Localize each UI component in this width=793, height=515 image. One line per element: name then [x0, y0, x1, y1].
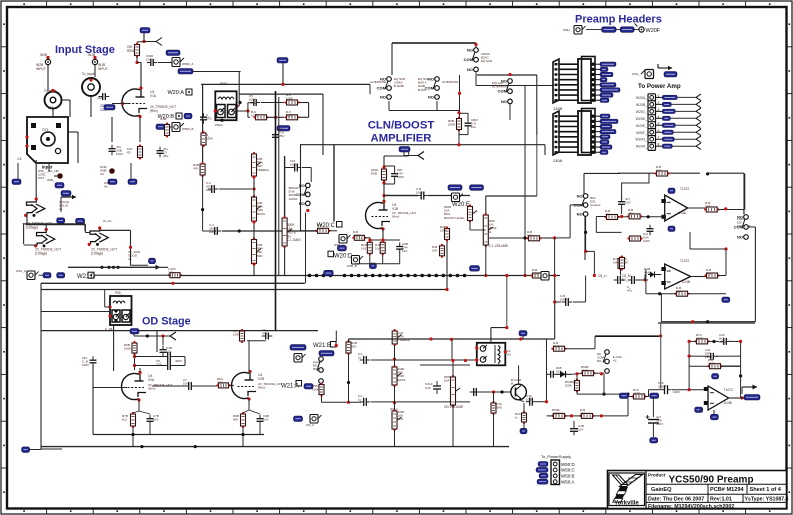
- wire: [369, 238, 371, 242]
- label C42: [719, 333, 726, 344]
- wire: [384, 195, 418, 197]
- wire: [158, 62, 172, 64]
- svg-text:A0: A0: [104, 185, 108, 189]
- junction: [235, 105, 238, 108]
- wire: [645, 269, 647, 294]
- junction: [553, 274, 556, 277]
- wire: [305, 213, 307, 284]
- pot OD BASS: [392, 365, 402, 387]
- label R9: [193, 163, 199, 171]
- svg-text:W20:C: W20:C: [317, 223, 336, 229]
- svg-text:C08: C08: [556, 370, 562, 374]
- net label N7: [43, 273, 51, 279]
- svg-text:Sheet 1 of 4: Sheet 1 of 4: [750, 487, 782, 493]
- net label J10A pin 6: [596, 140, 610, 144]
- net label N15: [619, 393, 628, 399]
- label W06_A: [334, 243, 344, 247]
- label C44: [397, 168, 404, 179]
- wire: [253, 176, 255, 198]
- svg-text:1M0: 1M0: [613, 261, 619, 265]
- junction: [171, 282, 174, 285]
- svg-text:100VA: 100VA: [289, 197, 298, 201]
- wire: [644, 275, 646, 281]
- wire: [404, 155, 418, 157]
- svg-text:NO: NO: [577, 194, 583, 199]
- label V2A: [148, 374, 155, 382]
- wire: [754, 227, 756, 322]
- wire: [547, 415, 554, 417]
- svg-text:W1T: W1T: [38, 176, 45, 180]
- label MID: [257, 243, 263, 258]
- wire: [39, 274, 44, 276]
- svg-text:100V: 100V: [673, 390, 680, 394]
- net label N16: [650, 393, 659, 399]
- label S6: [590, 196, 601, 207]
- op-amp U14B: [665, 264, 691, 289]
- wire: [491, 327, 507, 329]
- svg-text:W01_O: W01_O: [16, 269, 27, 273]
- bus junction: [442, 274, 446, 278]
- jack W06_A: [339, 235, 351, 244]
- svg-text:BOOST LEVEL: BOOST LEVEL: [444, 216, 465, 220]
- junction: [201, 208, 204, 211]
- svg-text:W20C_: W20C_: [636, 110, 647, 114]
- label OD MID: [398, 410, 405, 421]
- wire: [322, 94, 324, 155]
- svg-text:V2B: V2B: [258, 377, 264, 381]
- bus junction: [434, 274, 438, 278]
- net label PA0: [664, 72, 677, 78]
- label R14: [375, 243, 380, 251]
- wire: [156, 331, 158, 352]
- wire: [486, 195, 537, 197]
- wire: [569, 205, 571, 238]
- resistor R9: [200, 162, 205, 177]
- wire: [718, 209, 744, 211]
- wire: [308, 275, 470, 277]
- svg-text:Filename: M1294V200sch.sch2002: Filename: M1294V200sch.sch2002: [648, 504, 734, 510]
- resistor R30: [240, 329, 245, 343]
- wire: [469, 221, 471, 230]
- wire: [152, 385, 185, 387]
- label Q1: [38, 169, 60, 180]
- label U14Cb: [724, 401, 732, 405]
- net label CH2: [184, 113, 192, 119]
- junction: [553, 300, 556, 303]
- svg-text:R3: R3: [127, 151, 131, 155]
- label ODV: [444, 375, 451, 383]
- pot CL VOLUME: [483, 213, 493, 247]
- wire: [391, 43, 393, 75]
- svg-text:V2A: V2A: [148, 378, 155, 382]
- bus junction: [406, 274, 410, 278]
- wire: [470, 391, 511, 393]
- op-amp U14A: [665, 195, 688, 221]
- wire: [565, 415, 581, 417]
- resistor R4: [168, 273, 182, 278]
- svg-text:NO: NO: [467, 67, 473, 72]
- svg-text:C8_LI: C8_LI: [598, 274, 607, 278]
- wire: [202, 175, 204, 231]
- label W01: [632, 72, 640, 76]
- net label N6: [76, 218, 85, 224]
- junction: [457, 143, 460, 146]
- junction: [643, 278, 646, 281]
- resistor R3: [138, 144, 143, 159]
- resistor R2: [165, 122, 170, 137]
- label C22: [263, 414, 269, 422]
- capacitor C2: [109, 145, 116, 156]
- svg-text:U14B: U14B: [682, 280, 690, 284]
- label U14B: [680, 259, 689, 263]
- wire: [85, 232, 90, 234]
- label To_Input: [82, 72, 94, 76]
- svg-text:A_: A_: [515, 416, 519, 420]
- wire: [99, 229, 130, 231]
- junction: [25, 144, 28, 147]
- capacitor C46: [425, 381, 441, 394]
- switch S2: [377, 77, 392, 100]
- svg-text:EQ Shift: EQ Shift: [481, 59, 492, 63]
- wire: [518, 365, 520, 384]
- junction: [347, 401, 350, 404]
- junction: [504, 350, 507, 353]
- label S4: [492, 81, 508, 88]
- junction: [600, 414, 603, 417]
- capacitor C42: [720, 338, 731, 345]
- svg-text:C.L VOLUME: C.L VOLUME: [489, 244, 508, 248]
- junction: [252, 220, 255, 223]
- net label B+2: [277, 58, 288, 64]
- label Contour: [737, 217, 751, 228]
- wire: [149, 425, 151, 435]
- jack W20 row 4: [648, 115, 656, 123]
- junction: [600, 372, 603, 375]
- svg-text:B-D%: B-D%: [418, 88, 426, 92]
- wire: [545, 275, 560, 277]
- svg-text:YsType: YS1087.4: YsType: YS1087.4: [745, 497, 789, 503]
- svg-text:W20:D: W20:D: [334, 253, 353, 259]
- svg-text:1K5: 1K5: [705, 205, 711, 209]
- label C2: [116, 145, 123, 156]
- svg-text:100K: 100K: [233, 333, 240, 337]
- wire: [691, 276, 706, 278]
- label To_Input: [44, 89, 56, 93]
- wire: [261, 102, 284, 104]
- wire: [48, 163, 50, 172]
- net label PH1: [602, 27, 617, 33]
- pot OD TREBLE: [392, 329, 402, 346]
- svg-text:W50:A: W50:A: [561, 480, 575, 485]
- wire: [248, 399, 250, 410]
- wire: [476, 85, 553, 87]
- label Q3: [511, 378, 522, 386]
- junction: [450, 338, 453, 341]
- label R501: [127, 45, 135, 53]
- wire: [637, 279, 648, 281]
- wire: [369, 84, 371, 94]
- switch S6: [573, 194, 588, 217]
- arrow head: [156, 265, 161, 270]
- resistor R21: [604, 215, 619, 220]
- svg-text:1K0: 1K0: [706, 272, 712, 276]
- junction: [220, 119, 223, 122]
- junction: [306, 209, 309, 212]
- junction: [131, 433, 134, 436]
- svg-text:10K: 10K: [527, 234, 532, 238]
- svg-text:(Rev): (Rev): [392, 215, 399, 219]
- wire: [162, 336, 164, 345]
- capacitor C20: [185, 382, 196, 390]
- wire: [716, 355, 741, 357]
- pin square U14C+: [704, 401, 709, 405]
- junction: [112, 266, 115, 269]
- junction: [382, 165, 385, 168]
- svg-text:47N: 47N: [206, 117, 212, 121]
- junction: [429, 337, 432, 340]
- wire: [247, 103, 249, 118]
- wire: [509, 104, 511, 120]
- label J5: [17, 157, 22, 161]
- label R41: [708, 358, 715, 366]
- svg-text:W21:D: W21:D: [77, 274, 96, 280]
- junction: [688, 355, 691, 358]
- junction: [626, 393, 629, 396]
- svg-text:1u: 1u: [358, 398, 362, 402]
- wire: [68, 266, 160, 268]
- svg-text:W20F_: W20F_: [636, 131, 647, 135]
- bus junction: [420, 274, 424, 278]
- wire: [133, 411, 139, 413]
- net label W50 2: [536, 467, 548, 472]
- wire: [394, 180, 396, 184]
- net label N4: [128, 179, 137, 185]
- jack W20 row 2: [648, 101, 656, 109]
- triode V3A (2X_TRIODE_HCT): [88, 226, 109, 246]
- junction: [457, 111, 460, 114]
- label R16: [432, 245, 437, 253]
- label C7LIN2: [59, 200, 70, 211]
- svg-text:100K: 100K: [312, 388, 319, 392]
- label K1: [507, 349, 511, 357]
- svg-text:W50:D: W50:D: [561, 462, 576, 467]
- svg-text:25V: 25V: [279, 134, 284, 138]
- junction: [505, 326, 508, 329]
- svg-text:B 2k4B: B 2k4B: [394, 84, 404, 88]
- net label PA8: [656, 143, 702, 150]
- wire: [546, 339, 548, 349]
- capacitor C21: [262, 333, 273, 340]
- capacitor C19: [147, 415, 154, 426]
- net label AGND2: [710, 414, 718, 420]
- wire: [202, 84, 204, 164]
- wire: [134, 335, 170, 337]
- junction: [706, 320, 709, 323]
- switch S7 (Contour): [734, 215, 749, 240]
- svg-text:BASS: BASS: [257, 212, 265, 216]
- bus junction: [385, 274, 389, 278]
- wire: [237, 110, 248, 112]
- connector W21:A sq: [296, 381, 302, 387]
- junction: [135, 61, 138, 64]
- bus junction: [449, 274, 453, 278]
- label W0B2: [104, 181, 111, 189]
- net label J10A pin 2: [596, 119, 619, 123]
- svg-text:W06_B: W06_B: [347, 264, 357, 268]
- net label J10B pin 3: [596, 72, 614, 76]
- label C8M: [622, 274, 631, 282]
- wire: [45, 225, 47, 230]
- label R39: [552, 408, 560, 416]
- svg-text:NO: NO: [501, 99, 507, 104]
- net label CH1: [104, 105, 115, 111]
- junction: [116, 266, 119, 269]
- junction: [688, 340, 691, 343]
- wire: [729, 340, 741, 342]
- junction: [519, 337, 522, 340]
- wire: [573, 301, 586, 303]
- svg-text:W21:A: W21:A: [281, 383, 299, 389]
- svg-text:100V: 100V: [643, 239, 650, 243]
- capacitor C24: [360, 398, 371, 406]
- label C01: [290, 159, 297, 167]
- jack W20 row 6: [648, 129, 656, 137]
- label J1: [40, 53, 47, 57]
- junction: [142, 40, 145, 43]
- bus junction: [350, 274, 354, 278]
- capacitor C03: [618, 198, 625, 209]
- svg-text:W20D_: W20D_: [636, 117, 647, 121]
- label R24: [705, 201, 711, 209]
- svg-text:100K: 100K: [251, 114, 258, 118]
- svg-text:U14A: U14A: [678, 211, 687, 215]
- wire: [84, 225, 86, 233]
- label R38: [565, 380, 576, 388]
- wire: [242, 427, 244, 447]
- label C20: [183, 378, 189, 386]
- svg-text:INPUT: INPUT: [98, 67, 108, 71]
- label CLGAIN: [287, 223, 301, 242]
- svg-text:W20B_: W20B_: [636, 103, 647, 107]
- wire: [369, 254, 371, 264]
- wire: [392, 42, 476, 44]
- wire: [94, 65, 96, 77]
- net label W_OD1: [290, 345, 306, 351]
- net label VEE2: [695, 407, 703, 413]
- svg-text:100u: 100u: [168, 271, 175, 275]
- svg-text:350V: 350V: [656, 422, 663, 426]
- tube V1B: [366, 200, 390, 231]
- wire: [649, 389, 661, 391]
- svg-text:TREBLE: TREBLE: [257, 168, 269, 172]
- resistor R74: [694, 339, 709, 344]
- wire: [658, 322, 755, 324]
- label C520: [146, 54, 154, 62]
- resistor R8: [457, 116, 462, 131]
- jack W_bus: [541, 272, 549, 281]
- jack W01_O: [27, 271, 39, 280]
- connector J2: [92, 56, 97, 65]
- wire: [138, 400, 140, 411]
- wire: [459, 75, 461, 119]
- wire: [452, 405, 454, 447]
- svg-text:A0: A0: [100, 172, 104, 176]
- svg-text:Input Stage: Input Stage: [55, 44, 115, 56]
- svg-text:390K: 390K: [495, 406, 502, 410]
- net label PA5: [656, 122, 702, 129]
- svg-text:W20:A: W20:A: [167, 90, 184, 96]
- pot BASS: [252, 195, 262, 223]
- resistor R13: [367, 240, 372, 255]
- net label B+: [140, 28, 150, 34]
- wire: [576, 374, 578, 380]
- label C10: [402, 242, 408, 253]
- svg-text:470R: 470R: [532, 272, 540, 276]
- label GT: [42, 128, 49, 132]
- wire: [203, 230, 216, 232]
- wire: [523, 422, 525, 428]
- svg-text:220K: 220K: [206, 137, 213, 141]
- label R30: [233, 329, 240, 337]
- wire: [253, 264, 255, 276]
- wire: [137, 62, 141, 64]
- bus junction: [357, 274, 361, 278]
- wire: [554, 238, 556, 276]
- label R25: [706, 268, 712, 276]
- arrow out: [742, 385, 757, 395]
- junction: [274, 116, 277, 119]
- label C19: [153, 414, 159, 422]
- resistor R20: [654, 171, 669, 176]
- svg-text:800R: 800R: [313, 367, 320, 371]
- wire: [595, 335, 620, 337]
- svg-text:(Rev): (Rev): [148, 387, 155, 391]
- svg-text:100V: 100V: [116, 152, 123, 156]
- svg-text:10K: 10K: [656, 169, 661, 173]
- label C16: [156, 359, 162, 367]
- label C15: [658, 381, 667, 389]
- wire: [688, 341, 690, 389]
- svg-text:A2: A2: [613, 358, 617, 362]
- wire: [278, 97, 280, 276]
- junction: [100, 266, 103, 269]
- svg-text:K_2B: K_2B: [105, 327, 112, 331]
- wire: [596, 216, 606, 218]
- wire: [92, 366, 94, 387]
- junction: [475, 346, 478, 349]
- svg-text:82K: 82K: [233, 418, 238, 422]
- pot TREBLE: [252, 152, 262, 178]
- wire: [371, 401, 396, 403]
- net label N3: [108, 179, 117, 185]
- wire: [133, 334, 135, 336]
- capacitor C8: [208, 185, 219, 193]
- resistor R15: [445, 226, 450, 241]
- wire: [243, 410, 249, 413]
- wire: [370, 239, 400, 241]
- bus junction: [322, 274, 326, 278]
- transistor Q2: [109, 168, 115, 174]
- net label N5: [57, 218, 65, 224]
- net label PA6: [656, 129, 702, 136]
- net label VEE1: [668, 226, 675, 232]
- capacitor C01: [291, 164, 302, 172]
- wire: [585, 216, 587, 232]
- svg-text:47K: 47K: [628, 212, 633, 216]
- wire: [593, 251, 595, 275]
- label U14Ab: [678, 211, 687, 215]
- junction: [484, 274, 487, 277]
